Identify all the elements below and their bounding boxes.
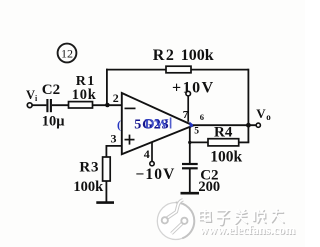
ground C2 200 — [181, 192, 200, 195]
node junction inverting input — [105, 103, 110, 108]
wire pin3 to R3 — [106, 146, 121, 157]
wire feedback top right — [191, 69, 248, 71]
watermark logo — [157, 200, 194, 240]
wire C2 to R1 — [52, 104, 69, 106]
+10V supply — [172, 80, 215, 122]
wire pin5 to R4 — [190, 141, 208, 143]
wire feedback right vertical — [247, 69, 249, 143]
wire R1 to op-amp pin2 — [93, 104, 122, 106]
resistor R1 10k — [69, 74, 97, 108]
wire C2 200 to ground — [189, 168, 191, 192]
svg-text:R2: R2 — [153, 47, 176, 64]
svg-text:4: 4 — [144, 147, 150, 161]
svg-text:200: 200 — [198, 179, 220, 195]
svg-text:5: 5 — [194, 126, 199, 136]
svg-text:10k: 10k — [72, 87, 97, 103]
wire Vi to C2 — [32, 104, 46, 106]
wire pin5 vertical — [189, 127, 191, 164]
op-amp U1 triangle — [111, 91, 205, 161]
-10V supply — [136, 142, 176, 183]
svg-text:R4: R4 — [214, 125, 233, 141]
wire feedback top left — [106, 69, 166, 71]
svg-text:10μ: 10μ — [42, 113, 66, 129]
svg-text:100k: 100k — [181, 47, 214, 64]
svg-text:+10V: +10V — [172, 80, 215, 97]
output terminal Vo — [256, 106, 271, 127]
resistor R3 100k — [73, 157, 110, 195]
svg-text:12: 12 — [61, 47, 73, 61]
svg-text:DW: DW — [145, 117, 169, 132]
capacitor C2 200 — [182, 164, 220, 195]
svg-text:−10V: −10V — [136, 166, 176, 183]
svg-text:www.elecfans.com: www.elecfans.com — [200, 223, 296, 237]
wire feedback left vertical — [106, 69, 108, 106]
svg-text:3: 3 — [111, 132, 117, 146]
resistor R4 100k — [208, 125, 243, 166]
input terminal Vi — [26, 88, 38, 108]
resistor R2 100k — [153, 47, 214, 73]
ground R3 — [96, 201, 114, 204]
node output junction — [246, 123, 251, 128]
svg-text:100k: 100k — [210, 149, 242, 166]
wire R4 to output node — [239, 141, 250, 143]
svg-text:C2: C2 — [42, 82, 60, 98]
svg-text:(: ( — [117, 118, 121, 132]
capacitor C2 10u — [42, 82, 66, 129]
wire op-amp output to Vo — [193, 124, 256, 126]
watermark url www.elecfans.com — [200, 223, 297, 238]
svg-text:R3: R3 — [79, 160, 99, 176]
op-amp model 5G23 with blue watermark DW — [117, 117, 194, 133]
figure number 12 — [58, 44, 77, 63]
node R4 tap — [188, 141, 191, 144]
svg-text:100k: 100k — [73, 179, 104, 195]
svg-text:6: 6 — [200, 112, 204, 122]
svg-text:2: 2 — [113, 91, 119, 105]
wire R3 to ground — [105, 181, 107, 202]
